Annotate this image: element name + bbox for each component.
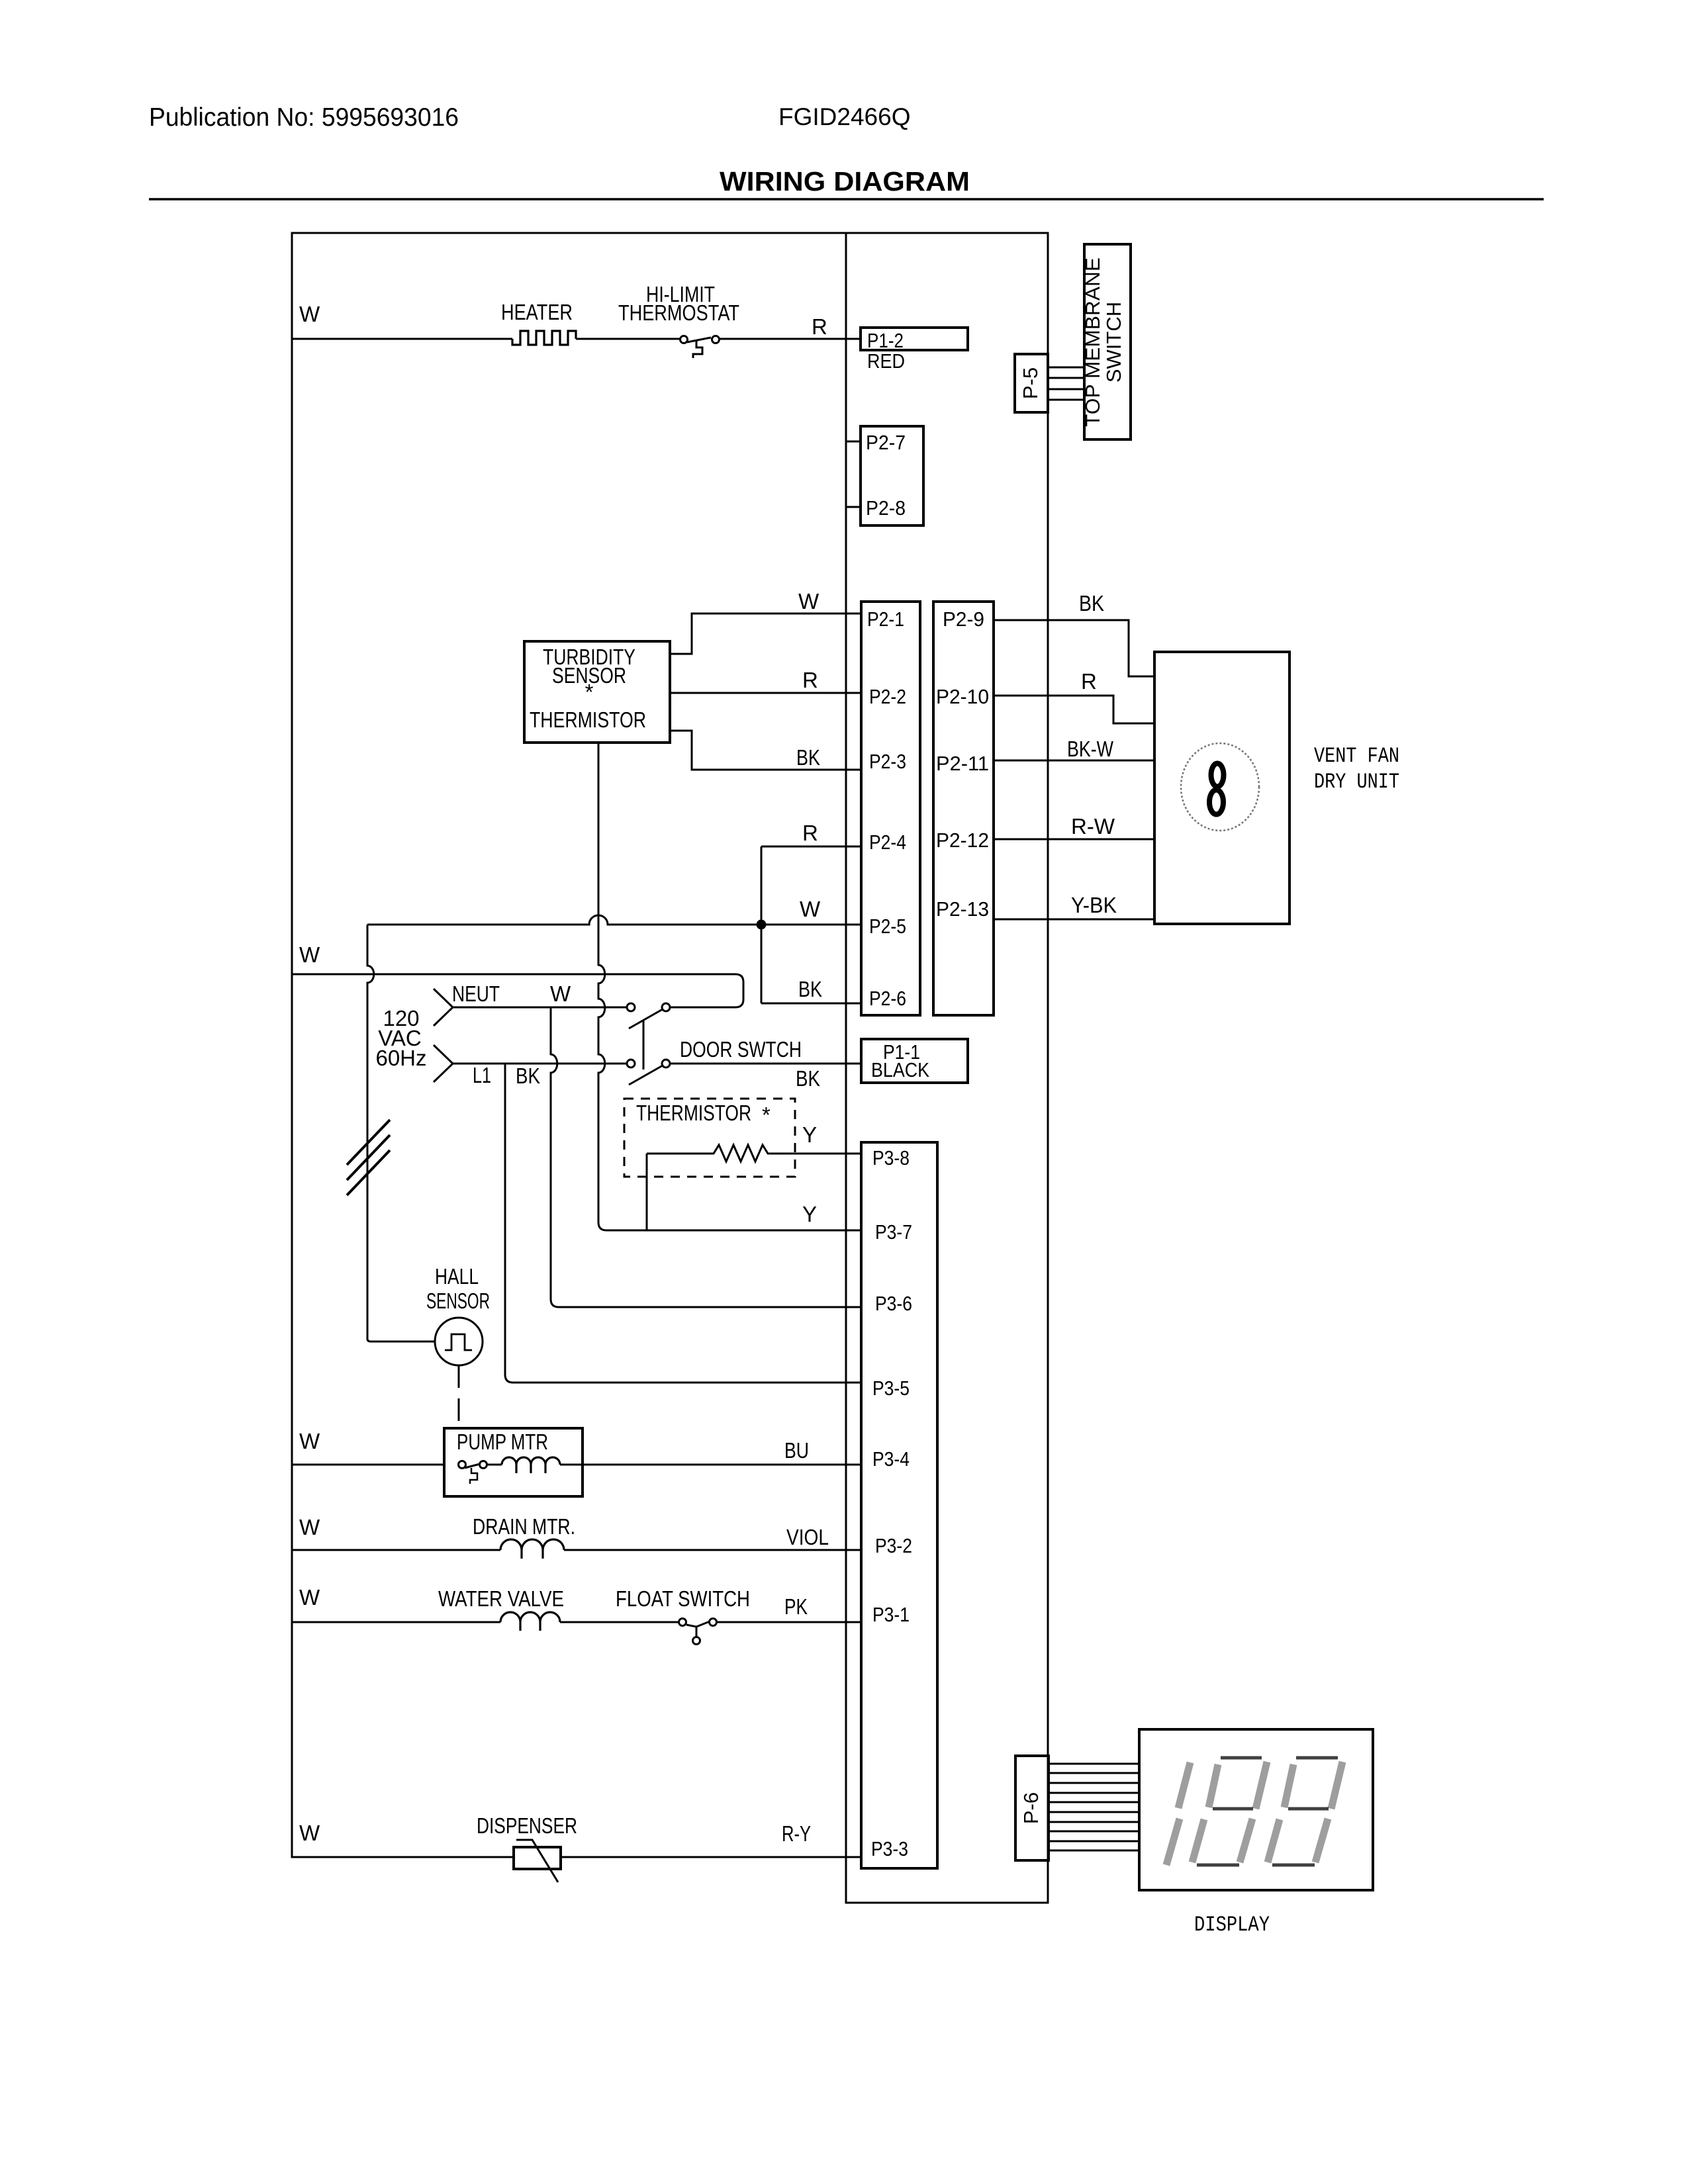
svg-text:THERMOSTAT: THERMOSTAT (618, 300, 739, 325)
hi-limit thermostat switch blade (687, 338, 711, 342)
connector P1-1 box (861, 1039, 968, 1083)
title underline rule (149, 198, 1544, 200)
svg-text:BLACK: BLACK (871, 1058, 929, 1081)
float switch bottom contact (693, 1637, 700, 1645)
svg-text:*: * (762, 1103, 771, 1127)
P-6 ribbon wire 4 (1049, 1792, 1139, 1794)
NEUT chevron (434, 989, 453, 1026)
float switch blade (686, 1621, 710, 1627)
wire W long to P2-5 with hop over turbidity line (367, 915, 861, 925)
svg-text:DRY UNIT: DRY UNIT (1314, 770, 1399, 794)
svg-text:RED: RED (867, 349, 905, 373)
svg-text:Y-BK: Y-BK (1071, 893, 1117, 917)
svg-text:P2-9: P2-9 (943, 608, 984, 631)
svg-text:W: W (299, 1585, 320, 1610)
svg-text:L1: L1 (473, 1063, 491, 1087)
wire pump to P3-4 (BU) (560, 1464, 861, 1466)
wire W to pump motor box (292, 1464, 444, 1466)
P-5 ribbon wire 2 (1048, 377, 1084, 379)
svg-text:P3-8: P3-8 (872, 1146, 910, 1169)
wire W to water valve winding (292, 1621, 500, 1623)
svg-text:P2-6: P2-6 (869, 987, 906, 1010)
svg-text:DRAIN MTR.: DRAIN MTR. (473, 1514, 575, 1539)
P-6 ribbon wire 5 (1049, 1801, 1139, 1803)
svg-text:*: * (585, 680, 594, 704)
svg-text:W: W (800, 897, 821, 921)
svg-text:P3-5: P3-5 (872, 1377, 910, 1400)
pump motor protector contact left (459, 1461, 466, 1469)
svg-text:P3-7: P3-7 (875, 1220, 912, 1244)
P-6 ribbon wire 6 (1049, 1811, 1139, 1813)
svg-text:HEATER: HEATER (501, 300, 573, 324)
cable slash mark 3 (347, 1150, 390, 1195)
display digit 2 upper right segment (1256, 1762, 1267, 1809)
wire heater to hi-limit thermostat (576, 338, 680, 340)
svg-text:R-Y: R-Y (782, 1821, 811, 1846)
svg-text:BK: BK (796, 745, 820, 770)
wire P2-11 to fan (BK-W) (994, 760, 1154, 762)
wire turbidity to P2-2 (R) (670, 692, 861, 694)
svg-text:P3-6: P3-6 (875, 1292, 912, 1315)
P-6 ribbon wire 1 (1049, 1763, 1139, 1765)
wire bottom edge to P3-3 (R-Y) (846, 1856, 861, 1858)
wire protector to winding (487, 1464, 502, 1466)
drain winding tail 2 (541, 1550, 543, 1559)
switch mechanical link (643, 1021, 645, 1069)
cable slash mark 1 (347, 1120, 390, 1165)
svg-text:P-6: P-6 (1019, 1792, 1043, 1824)
P-5 ribbon wire 1 (1048, 367, 1084, 369)
stub wire P2-7 (846, 441, 861, 443)
pump motor box (444, 1428, 583, 1496)
drain winding tail 1 (520, 1550, 522, 1559)
vent fan dry unit box (1154, 652, 1289, 924)
svg-text:60Hz: 60Hz (375, 1046, 426, 1070)
pump motor winding (502, 1457, 560, 1465)
pump motor protector blade (465, 1464, 480, 1468)
connector P2-7/P2-8 box (861, 426, 923, 525)
svg-text:VENT FAN: VENT FAN (1314, 744, 1399, 768)
wire W return from left edge to neutral switch riser (292, 974, 743, 1007)
wire water valve to float switch (560, 1621, 679, 1623)
pump motor protector contact right (480, 1461, 487, 1469)
wire door switch to P1-1 (670, 1063, 861, 1065)
hall sensor circle (435, 1318, 483, 1365)
interlock switch blade (629, 1009, 663, 1028)
svg-text:P2-7: P2-7 (866, 431, 906, 454)
svg-text:P2-1: P2-1 (867, 608, 904, 631)
P-6 ribbon wire 3 (1049, 1782, 1139, 1784)
wire drain to P3-2 (VIOL) (564, 1549, 861, 1551)
wire float switch to P3-1 (PK) (717, 1621, 861, 1623)
door switch blade (629, 1066, 663, 1085)
dispenser diagonal strike (516, 1840, 558, 1882)
svg-text:WATER VALVE: WATER VALVE (438, 1586, 564, 1611)
wire white riser to hall sensor (with hop and corner) (367, 925, 435, 1342)
wire branch to P2-6 (BK) (761, 1003, 861, 1005)
svg-text:P2-5: P2-5 (869, 915, 906, 938)
pump winding tail 2 (530, 1465, 532, 1473)
display digit 2 upper left segment (1209, 1764, 1218, 1807)
hi-limit thermostat switch S-HL contact left (680, 336, 688, 343)
display digit 2 top segment (1221, 1756, 1262, 1760)
connector P1-2 box (861, 328, 968, 350)
svg-text:P3-4: P3-4 (872, 1447, 910, 1471)
vent fan circle (1181, 743, 1259, 831)
main circuit box (292, 233, 846, 1857)
connector P-5 box (1015, 354, 1048, 412)
svg-text:P3-3: P3-3 (871, 1837, 908, 1860)
svg-text:W: W (299, 1515, 320, 1539)
display digit 1 upper segment (1178, 1762, 1190, 1808)
svg-text:FLOAT SWITCH: FLOAT SWITCH (616, 1586, 750, 1611)
svg-text:W: W (299, 1821, 320, 1845)
hall sensor dashed lead to pump motor (458, 1365, 460, 1428)
svg-text:P2-4: P2-4 (869, 831, 906, 854)
display digit 2 lower left segment (1192, 1819, 1204, 1862)
svg-text:PK: PK (784, 1594, 808, 1619)
wire neutral branch to P3-6 (with hop over L1) (551, 1007, 861, 1307)
hall sensor pulse glyph (445, 1334, 472, 1350)
svg-text:R-W: R-W (1071, 814, 1115, 839)
P-5 ribbon wire 3 (1048, 388, 1084, 390)
svg-text:P3-2: P3-2 (875, 1534, 912, 1557)
svg-text:P3-1: P3-1 (872, 1603, 910, 1626)
svg-text:BK: BK (798, 977, 822, 1001)
connector P-6 box (1015, 1756, 1049, 1860)
float switch contact right (710, 1619, 717, 1626)
display digit 2 bottom segment (1197, 1864, 1239, 1867)
svg-text:BK: BK (796, 1066, 820, 1091)
display digit 3 upper left segment (1284, 1764, 1293, 1807)
svg-text:HALL: HALL (435, 1264, 479, 1289)
P-6 ribbon wire 2 (1049, 1772, 1139, 1774)
display digit 3 middle segment (1288, 1807, 1329, 1811)
svg-text:R: R (802, 821, 818, 845)
svg-text:BK: BK (1079, 591, 1104, 615)
interlock switch contact left (627, 1003, 635, 1011)
P-5 ribbon wire 4 (1048, 399, 1084, 401)
display digit 3 bottom segment (1272, 1864, 1315, 1867)
wire L1 branch to P3-5 (505, 1064, 861, 1383)
svg-text:P2-8: P2-8 (866, 496, 906, 520)
junction dot on P2-5 wire (757, 920, 767, 930)
wire P2-9 to fan (BK) (994, 620, 1154, 676)
svg-text:P2-11: P2-11 (936, 752, 989, 775)
svg-text:R: R (802, 668, 818, 692)
display box (1139, 1729, 1373, 1890)
display digit 3 top segment (1296, 1756, 1338, 1760)
display digit 3 lower left segment (1268, 1819, 1280, 1862)
svg-text:BU: BU (784, 1438, 809, 1463)
wire L1 to door switch (453, 1063, 627, 1065)
wire P2-10 to fan (R) (994, 696, 1154, 723)
float switch link to bottom contact (696, 1627, 698, 1637)
wire turbidity to P2-1 (W) (670, 614, 861, 654)
svg-text:THERMISTOR: THERMISTOR (530, 707, 646, 732)
thermistor left lead down to P3-7 wire (646, 1154, 648, 1230)
pump winding tail 1 (515, 1465, 517, 1473)
svg-text:THERMISTOR: THERMISTOR (636, 1101, 751, 1125)
P-6 ribbon wire 8 (1049, 1831, 1139, 1833)
svg-text:Publication No: 5995693016: Publication No: 5995693016 (149, 103, 459, 132)
vent fan 8 glyph upper lobe (1211, 764, 1224, 787)
svg-text:R: R (812, 314, 827, 339)
heater element R-HTR (512, 331, 576, 345)
svg-text:R: R (1081, 669, 1097, 694)
stub wire P2-8 (846, 506, 861, 508)
door switch contact left (627, 1060, 635, 1068)
svg-text:DISPENSER: DISPENSER (477, 1813, 577, 1838)
svg-text:BK-W: BK-W (1067, 737, 1114, 761)
svg-text:FGID2466Q: FGID2466Q (778, 103, 910, 130)
svg-text:P2-12: P2-12 (936, 829, 989, 852)
svg-text:SENSOR: SENSOR (426, 1289, 490, 1313)
svg-text:W: W (299, 942, 320, 967)
pump winding tail 3 (544, 1465, 546, 1473)
turbidity sensor box (524, 641, 670, 743)
cable slash mark 2 (347, 1135, 390, 1180)
wire turbidity to P2-3 (BK) (670, 731, 861, 770)
svg-text:W: W (550, 981, 571, 1006)
svg-text:W: W (798, 589, 820, 614)
svg-text:PUMP MTR: PUMP MTR (457, 1430, 548, 1454)
connector P3 box (861, 1142, 937, 1868)
thermistor resistor element and wire to P3-8 (647, 1145, 861, 1161)
svg-text:P2-3: P2-3 (869, 750, 906, 773)
connector P2 (pins 9-13) box (933, 602, 994, 1015)
svg-text:NEUT: NEUT (452, 981, 500, 1006)
svg-text:DOOR SWTCH: DOOR SWTCH (680, 1037, 802, 1062)
door switch contact right (662, 1060, 670, 1068)
svg-text:W: W (299, 1429, 320, 1453)
hi-limit thermostat switch contact right (712, 336, 720, 343)
water valve winding tail 2 (539, 1622, 541, 1631)
wire W to drain winding (292, 1549, 500, 1551)
svg-text:DISPLAY: DISPLAY (1194, 1913, 1270, 1937)
display digit 2 lower right segment (1240, 1819, 1252, 1862)
pump motor protector squiggle (470, 1468, 477, 1484)
interlock switch contact right (662, 1003, 670, 1011)
svg-text:SWITCH: SWITCH (1102, 302, 1125, 383)
drain motor winding (500, 1539, 564, 1550)
wire hi-limit to P1-2 (720, 338, 861, 340)
svg-text:Y: Y (802, 1202, 817, 1226)
P-6 ribbon wire 7 (1049, 1821, 1139, 1823)
P-6 ribbon wire 10 (1049, 1850, 1139, 1852)
L1 chevron (434, 1045, 453, 1082)
svg-text:TOP MEMBRANE: TOP MEMBRANE (1081, 257, 1104, 427)
water valve winding (500, 1612, 560, 1622)
display digit 2 middle segment (1213, 1807, 1253, 1811)
svg-text:WIRING DIAGRAM: WIRING DIAGRAM (720, 166, 970, 197)
P-6 ribbon wire 9 (1049, 1841, 1139, 1843)
float switch contact left (679, 1619, 686, 1626)
branch vertical wire P2-4 to P2-6 (761, 846, 763, 1003)
svg-text:P2-10: P2-10 (936, 685, 989, 708)
thermistor dashed box (624, 1099, 795, 1177)
hi-limit thermostat thermal squiggle (693, 340, 702, 358)
turbidity sensor vertical wire down to P3-7 with hops (598, 743, 861, 1230)
dispenser element box (514, 1847, 561, 1869)
svg-text:VIOL: VIOL (786, 1525, 829, 1549)
display digit 3 lower right segment (1315, 1819, 1328, 1862)
wire P2-12 to fan (R-W) (994, 839, 1154, 841)
svg-text:Y: Y (802, 1122, 817, 1147)
display digit 3 upper right segment (1331, 1762, 1342, 1809)
svg-text:P2-13: P2-13 (936, 897, 989, 921)
wire branch to P2-4 (R) (761, 846, 861, 848)
wire P2-13 to fan (Y-BK) (994, 919, 1154, 921)
connector P2 (pins 1-6) box (861, 602, 920, 1015)
wire W from left edge to heater (292, 338, 512, 340)
vent fan 8 glyph lower lobe (1209, 790, 1223, 815)
wire NEUT to interlock switch (453, 1007, 627, 1009)
svg-text:P-5: P-5 (1019, 367, 1042, 399)
water valve winding tail 1 (519, 1622, 521, 1631)
svg-text:BK: BK (516, 1064, 540, 1088)
control board column box (846, 233, 1048, 1903)
display digit 1 lower segment (1166, 1819, 1180, 1865)
svg-text:W: W (299, 302, 320, 326)
top membrane switch box (1084, 244, 1131, 439)
svg-text:P1-2: P1-2 (867, 329, 904, 352)
svg-text:P2-2: P2-2 (869, 685, 906, 708)
